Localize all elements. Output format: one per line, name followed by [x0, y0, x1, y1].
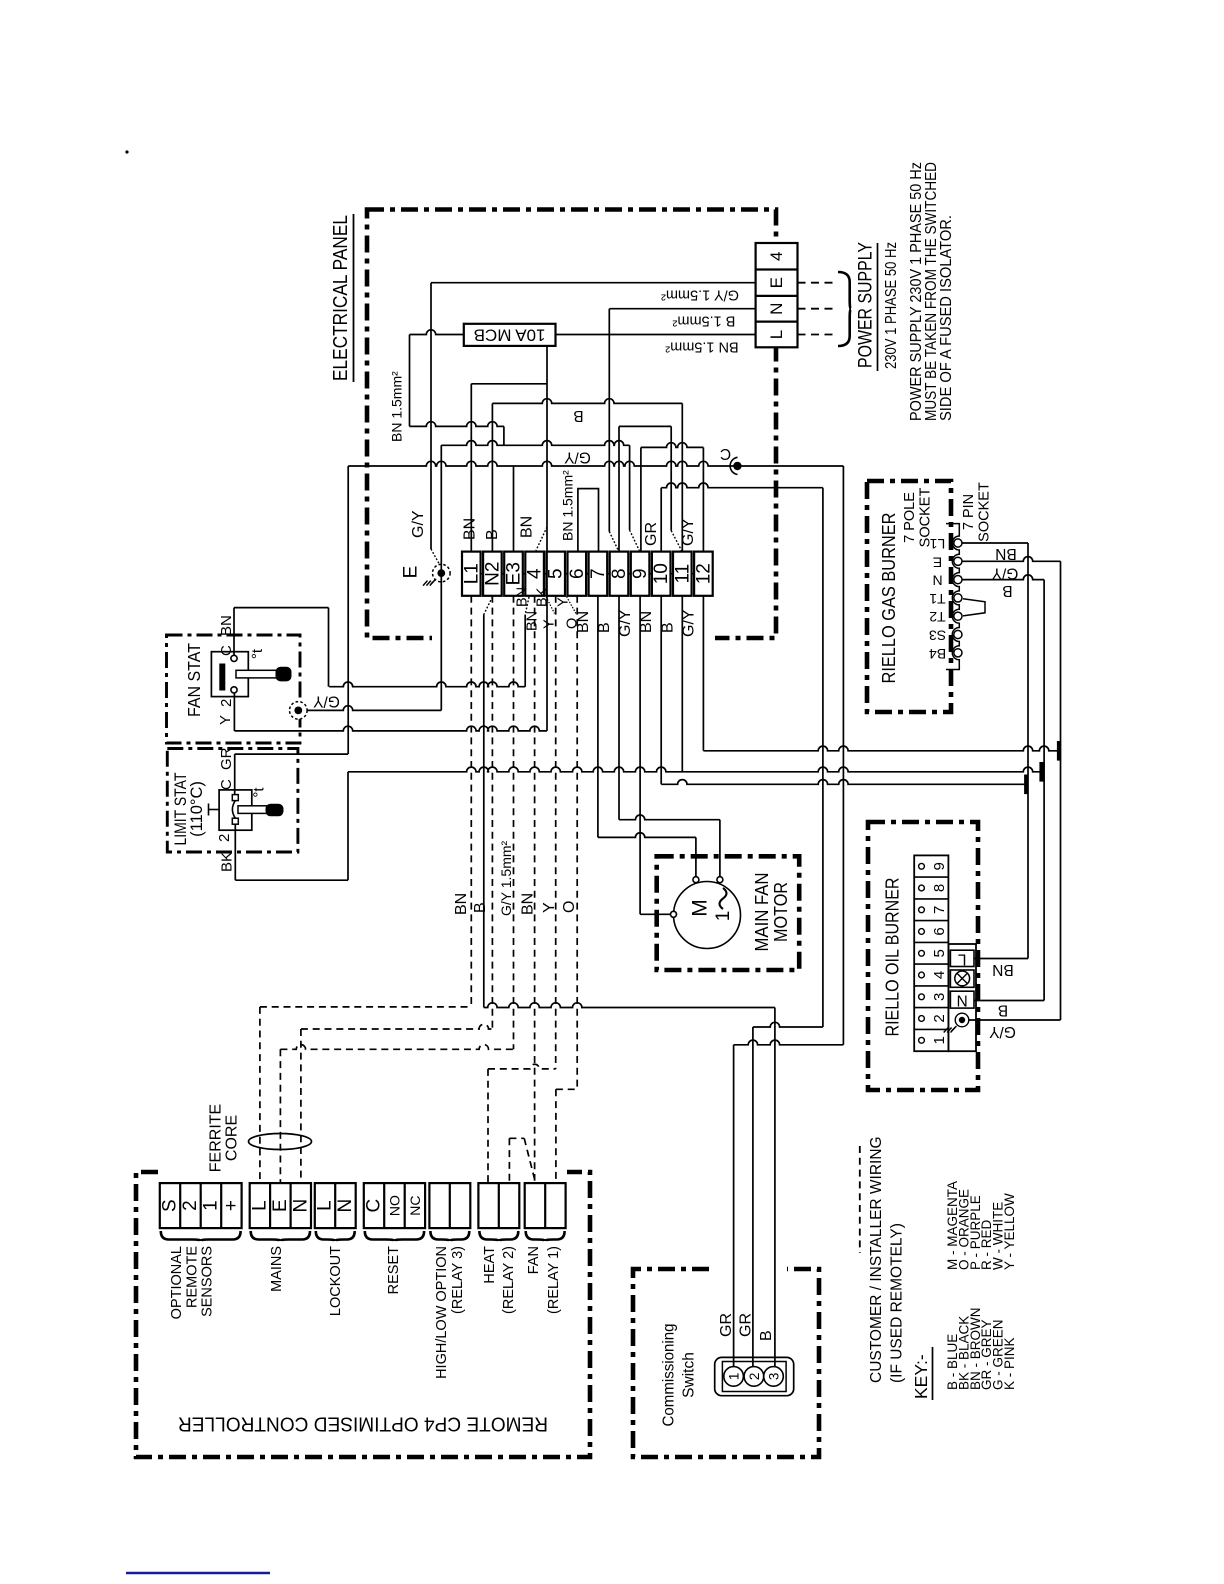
svg-text:MAIN FAN: MAIN FAN: [752, 873, 772, 952]
svg-text:4: 4: [767, 252, 786, 261]
svg-text:REMOTE CP4 OPTIMISED CONTROLLE: REMOTE CP4 OPTIMISED CONTROLLER: [178, 1413, 548, 1435]
svg-text:B: B: [472, 902, 489, 913]
svg-text:GR: GR: [738, 1313, 755, 1337]
svg-text:3: 3: [931, 993, 948, 1001]
svg-text:BN: BN: [515, 587, 531, 607]
svg-text:C: C: [218, 645, 235, 656]
svg-text:2: 2: [747, 1373, 762, 1381]
svg-text:BN 1.5mm²: BN 1.5mm²: [665, 339, 738, 355]
svg-text:12: 12: [693, 563, 714, 584]
svg-text:7: 7: [931, 906, 948, 914]
svg-text:4: 4: [931, 971, 948, 979]
svg-text:G/Y 1.5mm²: G/Y 1.5mm²: [498, 840, 514, 916]
svg-text:(RELAY 2): (RELAY 2): [501, 1246, 517, 1314]
svg-text:6: 6: [567, 568, 588, 579]
svg-text:N: N: [335, 1199, 356, 1213]
svg-text:G/Y: G/Y: [989, 1023, 1016, 1040]
svg-text:9: 9: [931, 862, 948, 870]
svg-text:L: L: [249, 1200, 270, 1211]
svg-text:GR: GR: [718, 1313, 735, 1337]
svg-text:G/Y: G/Y: [617, 609, 634, 637]
svg-text:°t: °t: [251, 787, 268, 798]
svg-text:B 1.5mm²: B 1.5mm²: [672, 313, 735, 329]
svg-text:9: 9: [630, 568, 651, 579]
svg-text:T2: T2: [929, 609, 946, 625]
svg-text:C: C: [364, 1199, 385, 1213]
svg-text:SIDE OF A FUSED ISOLATOR.: SIDE OF A FUSED ISOLATOR.: [938, 215, 955, 421]
svg-text:S: S: [160, 1199, 181, 1212]
svg-text:RESET: RESET: [386, 1246, 402, 1294]
svg-text:N: N: [290, 1199, 311, 1213]
svg-text:10A MCB: 10A MCB: [474, 325, 546, 344]
svg-text:BN: BN: [575, 611, 592, 633]
svg-text:Y - YELLOW: Y - YELLOW: [1002, 1193, 1017, 1270]
svg-text:BK: BK: [535, 587, 551, 607]
svg-text:N2: N2: [482, 562, 503, 586]
svg-text:HEAT: HEAT: [482, 1246, 498, 1284]
svg-text:G/Y: G/Y: [564, 449, 591, 466]
svg-text:BN: BN: [525, 611, 541, 631]
svg-text:(RELAY 3): (RELAY 3): [450, 1246, 466, 1314]
svg-text:(RELAY 1): (RELAY 1): [546, 1246, 562, 1314]
svg-text:BN: BN: [462, 518, 479, 540]
svg-text:CORE: CORE: [224, 1115, 241, 1161]
svg-text:(110°C): (110°C): [188, 781, 206, 837]
svg-text:BN 1.5mm²: BN 1.5mm²: [389, 371, 405, 442]
svg-text:L1: L1: [930, 536, 946, 552]
svg-text:LOCKOUT: LOCKOUT: [328, 1246, 344, 1316]
svg-text:M: M: [689, 899, 712, 917]
svg-text:B: B: [1002, 582, 1012, 599]
svg-text:E3: E3: [504, 562, 525, 585]
svg-text:2: 2: [180, 1200, 201, 1211]
svg-text:5: 5: [931, 949, 948, 957]
svg-text:Y: Y: [541, 902, 558, 913]
svg-text:4: 4: [525, 568, 546, 579]
svg-text:8: 8: [931, 884, 948, 892]
svg-text:1: 1: [727, 1373, 742, 1381]
svg-text:10: 10: [651, 563, 672, 584]
svg-text:6: 6: [931, 927, 948, 935]
svg-text:B: B: [484, 529, 501, 540]
svg-text:KEY:-: KEY:-: [911, 1354, 931, 1399]
svg-text:8: 8: [609, 568, 630, 579]
svg-text:B: B: [998, 1002, 1008, 1019]
svg-text:BK: BK: [218, 852, 235, 872]
svg-text:S3: S3: [929, 628, 946, 644]
svg-text:BN: BN: [519, 893, 536, 915]
svg-text:G/Y: G/Y: [680, 609, 697, 637]
svg-text:3: 3: [767, 1373, 782, 1381]
svg-text:Switch: Switch: [681, 1352, 698, 1398]
svg-text:FAN STAT: FAN STAT: [184, 643, 204, 717]
svg-text:L: L: [767, 330, 786, 339]
svg-text:T1: T1: [929, 591, 946, 607]
svg-text:Commissioning: Commissioning: [661, 1324, 678, 1427]
svg-text:1: 1: [200, 1200, 221, 1211]
svg-text:BN 1.5mm²: BN 1.5mm²: [560, 470, 576, 541]
svg-text:E: E: [767, 277, 786, 288]
svg-text:G/Y 1.5mm²: G/Y 1.5mm²: [661, 287, 739, 303]
svg-text:BN: BN: [218, 615, 235, 636]
svg-text:(IF USED REMOTELY): (IF USED REMOTELY): [889, 1223, 906, 1383]
svg-text:B: B: [573, 407, 583, 424]
svg-text:ELECTRICAL PANEL: ELECTRICAL PANEL: [330, 215, 352, 381]
svg-text:G/Y: G/Y: [992, 565, 1019, 582]
svg-text:HIGH/LOW OPTION: HIGH/LOW OPTION: [434, 1246, 450, 1379]
svg-text:Y: Y: [542, 619, 558, 629]
svg-text:GR: GR: [643, 522, 660, 546]
svg-text:BN: BN: [453, 893, 470, 915]
svg-text:5: 5: [546, 568, 567, 579]
svg-text:POWER SUPPLY: POWER SUPPLY: [856, 242, 877, 368]
svg-text:G/Y: G/Y: [313, 693, 340, 710]
svg-text:GR: GR: [218, 747, 235, 770]
svg-text:CUSTOMER / INSTALLER WIRING: CUSTOMER / INSTALLER WIRING: [868, 1136, 885, 1383]
svg-text:NO: NO: [387, 1195, 403, 1216]
svg-text:L: L: [958, 951, 967, 968]
svg-text:B: B: [596, 622, 613, 633]
svg-text:G/Y: G/Y: [410, 510, 427, 538]
svg-text:O: O: [561, 901, 578, 913]
svg-text:RIELLO OIL BURNER: RIELLO OIL BURNER: [882, 878, 903, 1037]
svg-text:BN: BN: [519, 516, 536, 538]
svg-text:2: 2: [216, 834, 233, 842]
svg-text:7: 7: [588, 568, 609, 579]
svg-text:BN: BN: [638, 611, 655, 633]
svg-text:E: E: [270, 1199, 291, 1212]
svg-text:RIELLO GAS BURNER: RIELLO GAS BURNER: [878, 513, 899, 684]
svg-text:SENSORS: SENSORS: [200, 1246, 216, 1317]
svg-text:BN: BN: [992, 961, 1014, 978]
svg-text:Y: Y: [217, 715, 234, 725]
svg-text:OPTIONAL: OPTIONAL: [169, 1246, 185, 1319]
svg-text:K - PINK: K - PINK: [1002, 1337, 1017, 1390]
svg-text:B4: B4: [929, 646, 946, 662]
svg-text:°t: °t: [249, 648, 266, 659]
svg-text:C: C: [218, 779, 235, 790]
svg-text:E: E: [401, 566, 422, 579]
svg-text:FAN: FAN: [526, 1246, 542, 1274]
svg-text:7 POLE: 7 POLE: [902, 492, 918, 543]
svg-text:1: 1: [931, 1036, 948, 1044]
svg-text:REMOTE: REMOTE: [184, 1246, 200, 1308]
svg-text:L1: L1: [461, 563, 482, 584]
svg-text:7 PIN: 7 PIN: [961, 494, 977, 530]
svg-text:MOTOR: MOTOR: [771, 882, 791, 942]
svg-text:SOCKET: SOCKET: [977, 482, 993, 542]
svg-text:NC: NC: [407, 1195, 423, 1215]
svg-text:11: 11: [672, 564, 693, 584]
svg-text:N: N: [957, 992, 968, 1009]
svg-text:C: C: [720, 445, 731, 462]
svg-text:N: N: [932, 573, 942, 589]
svg-text:2: 2: [931, 1014, 948, 1022]
svg-text:B: B: [758, 1330, 775, 1341]
svg-text:E: E: [933, 554, 942, 570]
svg-text:FERRITE: FERRITE: [208, 1104, 225, 1172]
svg-text:G/Y: G/Y: [680, 518, 697, 546]
svg-text:230V 1 PHASE 50 Hz: 230V 1 PHASE 50 Hz: [883, 242, 900, 369]
svg-text:BN: BN: [995, 545, 1017, 562]
svg-text:1: 1: [713, 911, 734, 922]
svg-text:+: +: [221, 1200, 242, 1211]
svg-text:L: L: [315, 1200, 336, 1211]
svg-text:MAINS: MAINS: [269, 1246, 285, 1292]
svg-text:2: 2: [218, 699, 235, 707]
svg-text:B: B: [659, 622, 676, 633]
svg-text:N: N: [767, 303, 786, 315]
